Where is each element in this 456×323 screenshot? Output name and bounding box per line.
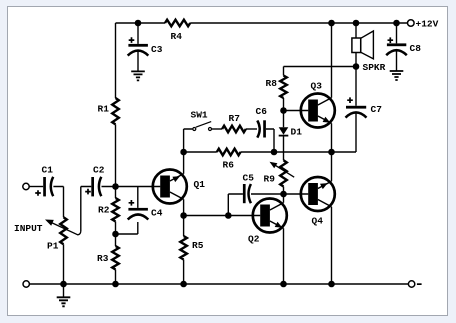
wire P1 bottom to ground rail: [63, 244, 65, 284]
svg-text:Q1: Q1: [194, 179, 206, 190]
capacitor C5 curved plate: [249, 184, 251, 203]
ground at C3: [131, 71, 145, 80]
node C6 drop: [271, 149, 278, 156]
capacitor C3 flat plate: [128, 44, 148, 47]
switch SW1: [193, 122, 212, 131]
plus sign C8: [388, 37, 394, 43]
resistor R6: [217, 149, 241, 156]
transistor Q4: [301, 177, 335, 211]
terminal output minus: [408, 281, 414, 287]
node R6 left: [180, 149, 187, 156]
wire Q2 base row: [184, 215, 261, 217]
plus sign C3: [129, 37, 135, 43]
wire C5 to R9 node: [251, 193, 284, 195]
capacitor C4 flat plate: [128, 208, 148, 211]
wire Q2 emitter to ground rail: [283, 228, 285, 284]
wire R1 column top: [115, 23, 117, 98]
wire R2 segments: [115, 187, 117, 235]
svg-text:C2: C2: [93, 165, 105, 176]
svg-text:R8: R8: [266, 78, 278, 89]
wire R8 to speaker node row: [284, 66, 357, 68]
wire C2 to Q1 base: [102, 186, 161, 188]
wire C4 branch tee: [137, 187, 139, 208]
node Q4 collector ground: [328, 281, 335, 288]
node P1 ground: [60, 281, 67, 288]
node Q1 base rail: [112, 183, 119, 190]
wire node to R5: [183, 216, 185, 237]
svg-text:R2: R2: [98, 205, 110, 216]
svg-text:C6: C6: [256, 106, 268, 117]
svg-text:C1: C1: [42, 165, 54, 176]
ground at C8: [390, 71, 404, 80]
wire Q1 emitter to node: [183, 199, 185, 215]
terminal +12V: [408, 20, 415, 27]
wire R7 to C6: [246, 128, 257, 130]
plus sign C7: [347, 97, 353, 103]
wire C8 branch: [396, 23, 398, 71]
svg-text:C8: C8: [410, 43, 422, 54]
capacitor C2 flat plate: [91, 177, 94, 196]
node speaker top: [353, 20, 360, 27]
wire bottom rail: [29, 283, 408, 285]
svg-text:C3: C3: [151, 44, 163, 55]
svg-text:R3: R3: [97, 253, 109, 264]
plus sign C1: [35, 190, 41, 196]
wire R3 segments: [115, 234, 117, 284]
wire speaker bottom to SPKR node: [355, 53, 357, 67]
node SPKR: [353, 63, 360, 70]
terminal ground left: [23, 281, 29, 287]
svg-text:Q2: Q2: [248, 234, 260, 245]
svg-text:C5: C5: [243, 173, 255, 184]
wire Q3 collector to +12V rail: [331, 23, 333, 98]
wire speaker top: [355, 23, 357, 38]
capacitor C7 curved plate: [346, 112, 367, 117]
svg-text:INPUT: INPUT: [14, 223, 43, 234]
svg-text:P1: P1: [47, 241, 59, 252]
resistor R3: [112, 246, 119, 270]
transistor Q3: [301, 94, 335, 128]
diode D1 bar: [279, 135, 289, 137]
wire C1 to P1 top corner: [53, 187, 63, 218]
wire bottom ground stem: [63, 284, 65, 297]
transistor Q1: [153, 170, 187, 204]
wire R5 bottom to ground rail: [183, 260, 185, 285]
node R5 ground: [180, 281, 187, 288]
wire C3 branch: [137, 23, 139, 71]
wire Q4 base: [284, 193, 309, 195]
svg-text:R7: R7: [229, 113, 241, 124]
capacitor C2 curved plate: [99, 177, 101, 196]
node Q3 collector at rail: [328, 20, 335, 27]
resistor R2: [112, 198, 119, 221]
node Q3 base: [280, 107, 287, 114]
transistor Q2: [253, 199, 287, 233]
wire top +12V rail: [116, 22, 408, 24]
svg-text:D1: D1: [291, 127, 303, 138]
capacitor C6 flat plate: [263, 120, 266, 137]
svg-text:+12V: +12V: [416, 19, 439, 30]
diode D1 triangle: [279, 127, 289, 135]
capacitor C6 curved plate: [257, 121, 259, 138]
svg-text:R4: R4: [171, 31, 183, 42]
label minus at output terminal: [417, 283, 422, 285]
node Q2 emitter ground: [280, 281, 287, 288]
capacitor C8 flat plate: [387, 43, 406, 46]
capacitor C5 flat plate: [243, 184, 246, 203]
resistor R8: [280, 76, 287, 99]
capacitor C7 flat plate: [346, 106, 366, 109]
capacitor C4 curved plate: [128, 215, 149, 220]
node C8 top: [393, 20, 400, 27]
wire Q1 collector riser to SW1 corner: [184, 129, 193, 174]
speaker SPKR: [352, 31, 374, 59]
ground at bottom rail: [57, 297, 71, 306]
wire Q3 emitter to feedback row: [331, 123, 333, 152]
svg-text:R5: R5: [192, 240, 204, 251]
svg-text:C7: C7: [371, 104, 383, 115]
node R9 bottom / Q4 base: [280, 191, 287, 198]
svg-text:R6: R6: [223, 160, 235, 171]
potentiometer P1 body: [60, 217, 67, 244]
capacitor C8 curved plate: [386, 50, 407, 55]
node C3 top: [135, 20, 142, 27]
wire input terminal to C1: [29, 186, 43, 188]
svg-text:SPKR: SPKR: [363, 62, 386, 73]
node R3 ground: [112, 281, 119, 288]
wire D1 leads: [283, 111, 285, 161]
node Q3-Q4 emitters: [328, 149, 335, 156]
resistor R7: [222, 126, 246, 133]
capacitor C1 curved plate: [51, 177, 53, 196]
wire R1 bottom to base node: [115, 124, 117, 186]
svg-text:R1: R1: [98, 104, 110, 115]
svg-text:Q4: Q4: [312, 216, 324, 227]
resistor R1: [112, 98, 119, 124]
plus sign C4: [129, 200, 135, 206]
wire SPKR node to C7: [355, 67, 357, 106]
wire R6 row left: [184, 151, 217, 153]
svg-text:Q3: Q3: [311, 81, 323, 92]
resistor R4: [165, 20, 190, 27]
capacitor C3 curved plate: [128, 51, 149, 56]
wire R9 bottom to node: [283, 187, 285, 195]
wire SW1 to R7: [212, 128, 222, 130]
node R2-R3 / C4: [112, 231, 119, 238]
wire feedback row to C7 bottom: [274, 112, 356, 152]
rheostat R9 body: [280, 160, 287, 186]
wire C6 to corner down to R6 rail: [266, 129, 274, 152]
wire Q4 emitter riser: [331, 152, 333, 181]
svg-text:R9: R9: [264, 174, 276, 185]
wire Q3 base: [284, 110, 309, 112]
wire C4 bottom to R2/R3 node: [116, 222, 138, 234]
wire Q2 collector riser: [283, 194, 285, 203]
wire Q4 collector to ground rail: [331, 207, 333, 284]
rheostat R9 wiper arrow: [270, 162, 295, 178]
wire R8 top: [283, 67, 285, 76]
node Q1 emitter: [180, 212, 187, 219]
potentiometer P1 wiper arrow: [45, 220, 81, 235]
svg-text:C4: C4: [151, 208, 163, 219]
svg-text:SW1: SW1: [191, 110, 208, 121]
terminal input: [23, 183, 29, 189]
wire C5 branch: [228, 194, 243, 216]
wire R6 right to node: [241, 151, 275, 153]
resistor R5: [180, 236, 187, 260]
capacitor C1 flat plate: [43, 177, 46, 196]
wire R8 bottom to Q3 base node: [283, 98, 285, 111]
plus sign C2: [85, 189, 91, 195]
node C5 branch: [225, 212, 232, 219]
wire P1 wiper riser to C2: [81, 187, 92, 232]
